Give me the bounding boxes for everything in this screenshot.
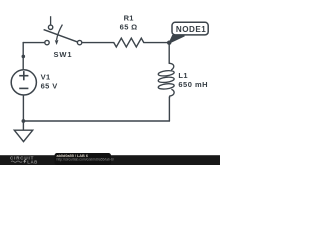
inductor L1 [158,63,174,97]
V1 plus sign [19,71,28,88]
node NODE1 flag tail [169,35,185,43]
node NODE1 junction dot [167,41,171,45]
svg-text:65 Ω: 65 Ω [120,23,138,32]
switch SW1 lever [44,30,78,42]
switch SW1 terminal top [48,25,52,29]
svg-text:NODE1: NODE1 [176,25,206,34]
wire resistor to node [144,42,169,44]
node ground junction dot [22,119,26,123]
wire left vertical upper [22,43,24,70]
svg-text:SW1: SW1 [54,50,73,59]
svg-text:LAB: LAB [27,159,38,164]
svg-text:http://circuitlab.com/c/ab0d0a: http://circuitlab.com/c/ab0d0a55/lab-6/ [57,158,114,162]
wire right vertical lower [168,97,170,121]
V1 minus sign [19,87,28,89]
wire switch to resistor [82,42,114,44]
switch SW1 terminal left [45,40,49,44]
voltage source V1 [11,70,36,95]
wire left vertical lower [22,95,24,121]
svg-text:R1: R1 [124,14,134,23]
wire top-left horizontal [23,42,45,44]
switch SW1 toggle arrow [57,25,63,40]
switch SW1 [44,16,82,45]
node NODE1 flag box [172,22,208,35]
wire bottom horizontal [23,120,169,122]
watermark url box [55,153,112,165]
switch SW1 terminal right [77,40,81,44]
svg-text:V1: V1 [41,72,51,81]
svg-text:650 mH: 650 mH [178,80,208,89]
wire switch top stub [50,16,52,25]
resistor R1 [114,38,144,47]
svg-text:L1: L1 [178,71,188,80]
svg-text:65 V: 65 V [41,81,58,90]
ground [14,121,32,142]
wire right vertical upper [168,43,170,64]
watermark footer bar [0,155,220,165]
node A junction dot left wire [22,55,26,59]
